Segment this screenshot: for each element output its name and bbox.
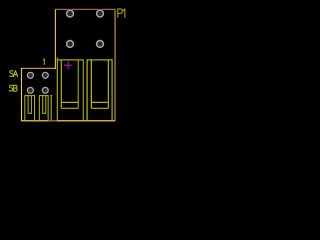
- pad SB-2: [42, 87, 48, 93]
- jumper SB pin-1 silk outer rect: [25, 96, 35, 121]
- connector P1 courtyard top edge: [55, 8, 116, 10]
- connector P1 courtyard right edge: [114, 9, 116, 121]
- jumper SB pin-2 silk outer rect: [39, 96, 48, 121]
- P1 silkscreen left edge: [56, 57, 58, 120]
- courtyard-only bottom segment (brown): [48, 120, 57, 122]
- P1 silk cavity left inner wall: [77, 60, 79, 109]
- jumper SB box top edge gold tail: [53, 67, 56, 69]
- P1 silk right cavity bottom bar: [91, 107, 108, 109]
- jumper SB box left edge (gold): [21, 68, 23, 121]
- P1 silk cavity left outer wall: [60, 60, 62, 109]
- P1 silk left cavity clamp bar: [61, 101, 78, 103]
- net label SB: [9, 85, 17, 91]
- reference designator P1: [118, 9, 125, 17]
- footprint anchor cross: [64, 61, 73, 69]
- pad P1-1: [67, 10, 74, 17]
- jumper SB silk partial right line: [50, 95, 52, 120]
- net label SA: [10, 71, 18, 77]
- jumper SB silk right line top stub: [50, 95, 52, 97]
- pad SA-1: [28, 72, 34, 78]
- P1 silk center channel left line: [82, 59, 84, 120]
- pad 1 hole crossing (purple segment): [68, 8, 72, 10]
- pin number 1 label: [43, 59, 44, 65]
- shared bottom edge (silk over courtyard): [21, 120, 115, 122]
- pad SA-2: [42, 72, 48, 78]
- P1 silk left cavity bottom bar: [61, 107, 78, 109]
- pad SB-1: [28, 87, 34, 93]
- jumper SB box top edge (gold+orange blend): [21, 67, 53, 69]
- P1 silk cavity right outer wall: [107, 60, 109, 109]
- P1 silkscreen top edge left part: [57, 59, 83, 61]
- P1 silkscreen top edge right part: [87, 59, 112, 61]
- jumper SB courtyard right edge (gold vertical): [54, 10, 56, 69]
- jumper SB pin-2 silk inner rect: [43, 96, 46, 114]
- P1 silk center channel right line: [86, 59, 88, 120]
- pad P1-2: [97, 10, 104, 17]
- pad P1-4: [97, 41, 104, 48]
- P1 silk right cavity clamp bar: [91, 101, 108, 103]
- P1 silk cavity right inner wall: [90, 60, 92, 109]
- P1 silkscreen right edge: [111, 59, 113, 120]
- jumper SB pin-1 silk inner rect: [28, 96, 31, 114]
- pad 2 hole crossing (purple segment): [98, 8, 102, 10]
- background: [0, 0, 134, 131]
- pad P1-3: [67, 41, 74, 48]
